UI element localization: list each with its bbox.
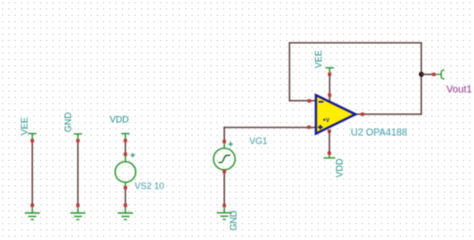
pin endpoint square (Vout tap): [432, 73, 435, 76]
pin endpoint square (VEE supply top): [328, 73, 331, 76]
power rail terminal VDD: [121, 134, 129, 139]
ground symbol 4: [217, 207, 232, 219]
voltage source VS2: [115, 156, 136, 186]
svg-text:Vout1: Vout1: [446, 84, 472, 95]
op-amp inverting input mark: [319, 101, 324, 103]
op-amp U2 triangle: [316, 95, 356, 134]
pin endpoint square (op-amp V+ pin): [328, 93, 331, 96]
pin endpoint square (output): [361, 113, 364, 116]
svg-text:V: V: [326, 118, 330, 124]
op-amp +V marker: [323, 118, 330, 124]
pin endpoint square (ground 1): [31, 204, 34, 207]
wire GND rail to ground: [77, 142, 79, 204]
wire feedback: left vertical: [289, 43, 291, 102]
op-amp VEE supply pin terminal: [325, 68, 333, 73]
wire op-amp output: [356, 113, 422, 115]
svg-text:VDD: VDD: [110, 115, 130, 125]
svg-text:GND: GND: [228, 210, 238, 231]
pin endpoint square (VDD rail): [124, 139, 127, 142]
voltage source VS2 plus mark: [131, 153, 135, 157]
svg-text:VEE: VEE: [20, 117, 30, 135]
wire junction to output terminal: [421, 73, 432, 75]
wire VG1 to ground: [223, 173, 225, 204]
pin endpoint square (ground 4): [223, 204, 226, 207]
power rail terminal GND (left): [74, 134, 82, 139]
wire feedback: right vertical: [420, 43, 422, 115]
power rail terminal VEE (left): [28, 134, 36, 139]
op-amp non-inverting input mark: [318, 125, 323, 129]
pin endpoint square (+ input): [307, 126, 310, 129]
ground symbol 2: [70, 207, 85, 220]
svg-text:VDD: VDD: [334, 158, 344, 178]
output terminal Vout1 fork: [436, 70, 445, 80]
pin endpoint square (ground 2): [76, 204, 79, 207]
op-amp VDD supply pin terminal: [324, 155, 336, 158]
pin endpoint square (GND rail): [76, 139, 79, 142]
ground symbol 3: [118, 207, 133, 220]
pin endpoint square (op-amp V- pin): [328, 130, 331, 133]
wire VG1 to op-amp + input: [224, 126, 315, 128]
junction node at feedback/output tap: [419, 72, 424, 77]
pin endpoint square (VG1 - pin): [223, 170, 226, 173]
wire VG1 top vertical: [223, 127, 225, 141]
svg-text:U2 OPA4188: U2 OPA4188: [351, 128, 407, 139]
voltage generator VG1: [214, 143, 236, 173]
svg-text:GND: GND: [63, 112, 73, 133]
pin endpoint square (- input): [308, 99, 311, 102]
pin endpoint square (VS2 + pin): [124, 153, 127, 156]
wire feedback: - input horizontal: [290, 100, 316, 102]
svg-text:VEE: VEE: [314, 50, 324, 68]
pin endpoint square (VG1 + pin): [223, 140, 226, 143]
pin endpoint square (VDD supply bottom): [328, 152, 331, 155]
VG1 step waveform: [218, 155, 230, 162]
svg-text:VG1: VG1: [249, 136, 267, 146]
svg-text:VS2 10: VS2 10: [135, 181, 165, 191]
pin endpoint square (VS2 - pin): [124, 186, 127, 189]
wire feedback: top rail: [289, 42, 422, 44]
wire VEE supply to op-amp: [329, 76, 331, 101]
ground symbol 1: [25, 207, 40, 220]
pin endpoint square (VEE rail): [31, 139, 34, 142]
wire VS2 to ground: [124, 189, 126, 204]
pin endpoint square (ground 3): [124, 204, 127, 207]
wire VEE rail to ground: [31, 142, 33, 204]
generator VG1 plus mark: [228, 142, 232, 146]
wire VDD rail to VS2: [124, 142, 126, 156]
wire op-amp to VDD supply: [328, 131, 330, 152]
